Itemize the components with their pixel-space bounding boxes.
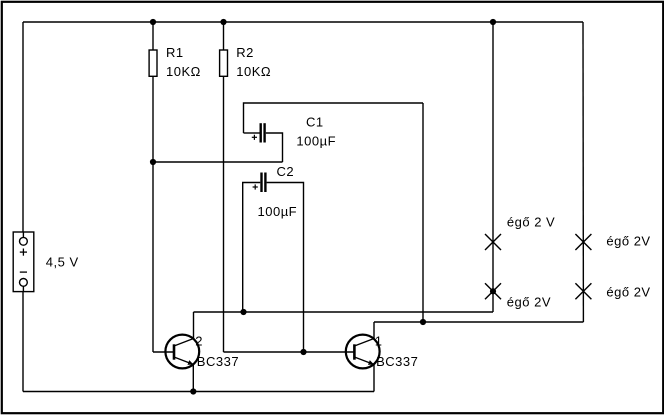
node R2 top [220, 19, 226, 25]
node lamp junction [490, 288, 496, 294]
svg-text:C2: C2 [277, 164, 295, 179]
wire top rail [23, 21, 583, 23]
resistor R2 [220, 50, 228, 76]
svg-text:100µF: 100µF [296, 134, 336, 149]
svg-text:1: 1 [375, 334, 383, 349]
capacitor C1 [252, 115, 336, 149]
wire Q1 emitter [373, 365, 375, 392]
svg-text:R2: R2 [236, 45, 254, 60]
node lamp column top [490, 19, 496, 25]
wire C2 right lead [267, 183, 304, 353]
wire Q1 collector rail [374, 321, 583, 323]
wire Q2 emitter [192, 365, 194, 392]
lamp L2 (égő 2V) [485, 283, 551, 309]
lamp L3 (égő 2V) [575, 234, 650, 250]
node C1 Q1-collector junction [420, 319, 426, 325]
transistor Q2 BC337 [165, 334, 239, 370]
resistor R1 [149, 50, 157, 76]
transistor Q1 BC337 [346, 334, 419, 370]
wire right lamp column [582, 22, 584, 322]
node R1 C1 junction [150, 159, 156, 165]
wire Q1 base [224, 351, 355, 353]
svg-text:égő 2V: égő 2V [507, 294, 551, 309]
wire Q2 collector [193, 312, 195, 339]
svg-text:R1: R1 [166, 45, 184, 60]
wire C1 left lead [244, 132, 260, 134]
svg-text:2: 2 [195, 334, 203, 349]
node C2 Q1-base junction [300, 349, 306, 355]
wire Q2 base [153, 351, 175, 353]
svg-text:10KΩ: 10KΩ [166, 64, 201, 79]
wire left lamp column [492, 22, 494, 312]
node Q2 emitter junction [190, 388, 196, 394]
node C2 Q2-collector junction [240, 309, 246, 315]
svg-text:égő 2V: égő 2V [606, 284, 650, 299]
wire bottom rail [23, 391, 374, 393]
battery BT1 4,5V [13, 232, 78, 292]
wire left rail lower [22, 290, 24, 392]
wire C1 box right vertical [422, 103, 424, 322]
wire Q1 collector [373, 322, 375, 339]
capacitor C2 [253, 164, 298, 219]
node R1 top [150, 19, 156, 25]
wire Q2 collector rail [194, 311, 494, 313]
wire C1 right lead [266, 133, 283, 162]
svg-text:4,5 V: 4,5 V [46, 254, 79, 269]
svg-text:10KΩ: 10KΩ [236, 64, 271, 79]
wire C1 top link [244, 103, 424, 133]
lamp L4 (égő 2V) [575, 283, 650, 299]
svg-text:C1: C1 [306, 115, 324, 130]
svg-text:100µF: 100µF [258, 204, 298, 219]
wire C2 left lead [243, 183, 261, 313]
wire C1 to R1 node [153, 161, 283, 163]
svg-text:égő 2 V: égő 2 V [507, 215, 555, 230]
wire R2 branch [223, 22, 225, 50]
svg-text:BC337: BC337 [197, 354, 239, 369]
wire R1 branch [152, 22, 154, 50]
lamp L1 (égő 2 V) [485, 215, 555, 251]
svg-text:BC337: BC337 [376, 354, 418, 369]
wire left rail upper [22, 22, 24, 233]
svg-text:égő 2V: égő 2V [606, 234, 650, 249]
